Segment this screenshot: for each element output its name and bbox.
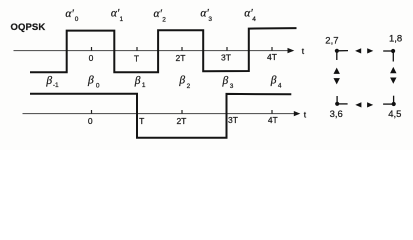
svg-text:4T: 4T	[268, 115, 278, 125]
label beta1	[134, 75, 146, 89]
svg-text:β: β	[134, 75, 141, 87]
label alpha2	[154, 8, 167, 24]
top tick T	[136, 47, 138, 51]
constellation: node 3,6 (bottom-left)	[330, 96, 348, 120]
svg-text:4,5: 4,5	[388, 109, 401, 120]
label beta2	[178, 75, 190, 91]
svg-text:-1: -1	[53, 82, 59, 89]
top time axis	[14, 50, 290, 52]
svg-text:T: T	[139, 116, 144, 126]
svg-text:2,7: 2,7	[325, 35, 338, 46]
svg-text:T: T	[134, 54, 139, 64]
svg-text:4: 4	[278, 83, 282, 90]
top tick 4T	[271, 47, 273, 51]
svg-text:β: β	[178, 75, 185, 87]
svg-text:OQPSK: OQPSK	[11, 22, 46, 33]
svg-text:4: 4	[252, 16, 256, 23]
svg-text:3,6: 3,6	[330, 109, 343, 120]
svg-text:0: 0	[88, 116, 93, 126]
svg-text:β: β	[222, 75, 229, 87]
top edge arrow left	[355, 48, 361, 53]
svg-text:1,8: 1,8	[389, 33, 402, 44]
svg-text:β: β	[87, 75, 94, 87]
svg-text:2: 2	[187, 83, 191, 90]
label beta-1	[45, 75, 59, 89]
bottom axis arrowhead	[294, 111, 301, 116]
left edge arrow up	[334, 68, 340, 74]
top waveform (alpha stream)	[30, 28, 297, 72]
label alpha4	[244, 8, 256, 23]
bottom tick 2T	[181, 110, 183, 114]
left edge arrow down	[334, 78, 340, 84]
right edge arrow down	[390, 78, 396, 84]
label beta4	[270, 75, 282, 90]
svg-text:β: β	[270, 75, 277, 87]
svg-text:2T: 2T	[176, 116, 186, 126]
svg-text:0: 0	[75, 16, 79, 23]
bottom edge arrow left	[355, 102, 361, 107]
svg-text:3: 3	[208, 16, 212, 23]
top tick 3T	[226, 47, 228, 51]
svg-text:4T: 4T	[267, 52, 277, 62]
svg-text:3T: 3T	[228, 115, 238, 125]
svg-text:3T: 3T	[221, 53, 231, 63]
label alpha1	[111, 8, 124, 23]
svg-text:1: 1	[142, 82, 146, 89]
svg-text:α′: α′	[154, 8, 163, 20]
bottom tick 0	[91, 110, 93, 114]
svg-text:β: β	[45, 75, 52, 87]
top edge arrow right	[367, 48, 373, 53]
constellation: node 4,5 (bottom-right)	[383, 96, 401, 120]
top tick 0	[91, 47, 93, 51]
label alpha3	[200, 8, 212, 24]
constellation: node 1,8 (top-right)	[383, 33, 402, 61]
label beta3	[222, 75, 234, 90]
top axis arrowhead	[288, 48, 295, 53]
bottom edge arrow right	[367, 102, 373, 107]
svg-text:2T: 2T	[176, 53, 186, 63]
right edge arrow up	[390, 67, 396, 73]
svg-text:0: 0	[89, 53, 94, 63]
constellation: node 2,7 (top-left)	[325, 35, 348, 60]
svg-text:2: 2	[162, 16, 166, 23]
svg-text:1: 1	[120, 16, 124, 23]
bottom tick 4T	[271, 110, 273, 114]
label alpha0	[65, 8, 78, 23]
top tick 2T	[181, 47, 183, 51]
bottom waveform (beta stream)	[30, 94, 291, 138]
label beta0	[87, 75, 100, 90]
svg-text:3: 3	[230, 83, 234, 90]
svg-text:α′: α′	[65, 8, 74, 20]
bottom time axis	[23, 113, 296, 115]
svg-text:0: 0	[96, 82, 100, 89]
